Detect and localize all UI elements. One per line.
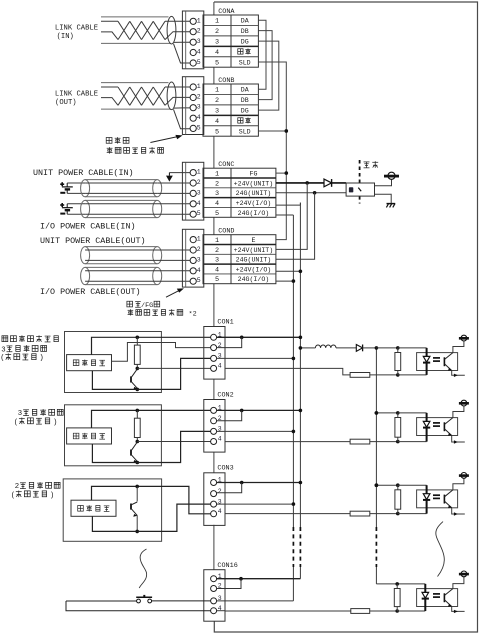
DC/DC converter U1 xyxy=(346,183,374,196)
connector body xyxy=(182,77,203,135)
optocoupler xyxy=(417,418,458,436)
rail link CON1->CON2 node xyxy=(375,411,379,415)
svg-text:CON3: CON3 xyxy=(217,464,233,472)
svg-text:LINK CABLE: LINK CABLE xyxy=(55,24,98,32)
svg-text:2: 2 xyxy=(197,246,201,253)
svg-text:3: 3 xyxy=(215,108,219,116)
svg-text:): ) xyxy=(50,492,54,500)
svg-text:1: 1 xyxy=(197,169,201,176)
svg-text:+24V(UNIT): +24V(UNIT) xyxy=(234,180,274,187)
svg-text:*2: *2 xyxy=(189,311,197,319)
diode D1 xyxy=(324,179,332,187)
CON16 emitter stub xyxy=(452,607,465,612)
sensor return wire xyxy=(135,530,139,534)
sensor power wire xyxy=(92,410,211,428)
svg-text:DG: DG xyxy=(241,108,249,115)
svg-text:1: 1 xyxy=(215,171,219,179)
power cable capsule xyxy=(85,199,157,201)
sensor 0V wire xyxy=(136,461,140,465)
battery (power supply) xyxy=(66,183,68,187)
svg-text:DB: DB xyxy=(241,97,249,104)
diode D2 xyxy=(356,345,362,352)
connector body xyxy=(182,11,203,69)
sensor outer box xyxy=(63,479,161,541)
svg-text:3: 3 xyxy=(197,189,201,196)
svg-text:2: 2 xyxy=(197,179,201,186)
continuation squiggle (right) xyxy=(436,522,444,577)
external pushbutton switch xyxy=(66,600,137,602)
svg-text:(: ( xyxy=(0,355,4,363)
svg-text:3: 3 xyxy=(197,38,201,45)
svg-text:2: 2 xyxy=(218,488,222,495)
svg-text:I/O POWER CABLE(IN): I/O POWER CABLE(IN) xyxy=(40,221,136,231)
optocoupler xyxy=(417,353,458,371)
24G(UNIT) line xyxy=(276,192,346,194)
power cable capsule xyxy=(85,266,157,268)
SLD / FG common line xyxy=(258,62,286,240)
svg-text:3: 3 xyxy=(215,190,219,198)
svg-text:24G(UNIT): 24G(UNIT) xyxy=(236,190,272,197)
CON16 series resistor xyxy=(225,610,351,612)
svg-text:5: 5 xyxy=(215,128,219,136)
CON16 opto feed line xyxy=(376,583,425,585)
svg-text:CON1: CON1 xyxy=(217,318,233,326)
svg-text:DA: DA xyxy=(241,87,249,94)
input resistor (series) xyxy=(225,368,350,375)
pull resistor (parallel) xyxy=(395,418,401,438)
svg-text:+24V(I/O): +24V(I/O) xyxy=(236,266,272,273)
optocoupler xyxy=(417,490,458,508)
svg-text:4: 4 xyxy=(215,266,219,274)
24G(UNIT) to COND xyxy=(276,193,315,259)
insulation dashed line + 绝缘 label xyxy=(359,160,361,183)
sensor outer box xyxy=(65,332,162,393)
opto-isolator input network xyxy=(217,482,301,484)
svg-text:4: 4 xyxy=(218,363,222,370)
svg-text:5: 5 xyxy=(215,59,219,67)
svg-text:SLD: SLD xyxy=(239,128,251,135)
svg-text:LINK CABLE: LINK CABLE xyxy=(55,90,98,98)
svg-text:FG: FG xyxy=(249,171,257,178)
svg-text:1: 1 xyxy=(215,18,219,26)
svg-text:E: E xyxy=(251,237,255,244)
action switching input wire xyxy=(112,343,211,362)
spine (internal common line) xyxy=(213,2,215,15)
opto feed rail xyxy=(375,348,377,527)
link cable twisted pair xyxy=(101,16,169,18)
power terminal xyxy=(453,406,464,417)
svg-text:2: 2 xyxy=(197,28,201,35)
power cable capsule xyxy=(85,179,157,181)
CON16 optocoupler xyxy=(417,589,458,607)
opto-isolator input network xyxy=(217,336,301,338)
sensor transistor xyxy=(136,486,138,501)
svg-text:+24V(UNIT): +24V(UNIT) xyxy=(234,247,274,254)
sensor signal wire xyxy=(92,486,211,513)
input resistor (series) xyxy=(225,441,350,443)
svg-text:2: 2 xyxy=(215,180,219,188)
connector body xyxy=(182,229,203,287)
svg-text:DA: DA xyxy=(241,18,249,25)
svg-text:): ) xyxy=(39,355,43,363)
svg-text:24G(UNIT): 24G(UNIT) xyxy=(236,257,272,264)
+24V(I/O) rail xyxy=(276,204,301,206)
sensor transistor xyxy=(130,376,132,382)
connector body xyxy=(182,162,203,220)
input resistor (series) xyxy=(225,513,350,515)
label: communication direct-mount connector xyxy=(106,138,112,144)
svg-text:+24V(I/O): +24V(I/O) xyxy=(236,200,272,207)
svg-text:3: 3 xyxy=(215,257,219,265)
svg-text:1: 1 xyxy=(215,87,219,95)
svg-text:3: 3 xyxy=(18,410,22,418)
svg-text:4: 4 xyxy=(215,118,219,126)
svg-text:2: 2 xyxy=(215,247,219,255)
detection circuit box xyxy=(67,428,112,444)
svg-text:2: 2 xyxy=(215,97,219,105)
power terminal xyxy=(453,479,464,490)
sensor output node xyxy=(136,440,140,444)
svg-text:(: ( xyxy=(11,492,15,500)
svg-text:3: 3 xyxy=(197,104,201,111)
svg-text:): ) xyxy=(53,419,57,427)
svg-text:1: 1 xyxy=(197,236,201,243)
svg-text:2: 2 xyxy=(215,28,219,36)
svg-text:DG: DG xyxy=(241,39,249,46)
svg-text:I/O POWER CABLE(OUT): I/O POWER CABLE(OUT) xyxy=(40,287,141,297)
switch return to pin4 xyxy=(66,601,211,611)
svg-text:/FG: /FG xyxy=(141,302,153,310)
svg-text:(IN): (IN) xyxy=(57,33,74,41)
svg-text:DB: DB xyxy=(241,28,249,35)
sensor pull resistor xyxy=(136,410,138,418)
24G(I/O) rail xyxy=(276,214,294,216)
+24V(UNIT) feed line with diode D1 xyxy=(276,182,346,184)
inductor L1 xyxy=(300,347,315,349)
svg-text:SLD: SLD xyxy=(239,59,251,66)
svg-text:5: 5 xyxy=(197,210,201,217)
svg-text:1: 1 xyxy=(197,83,201,90)
svg-text:5: 5 xyxy=(197,277,201,284)
svg-text:(: ( xyxy=(14,419,18,427)
sensor 0V wire xyxy=(136,388,140,392)
svg-text:5: 5 xyxy=(197,124,201,131)
svg-text:CON16: CON16 xyxy=(217,562,237,570)
pull resistor (parallel) xyxy=(395,353,401,371)
svg-text:4: 4 xyxy=(197,49,201,56)
battery (power supply) xyxy=(66,204,68,208)
svg-text:2: 2 xyxy=(15,483,19,491)
svg-text:CON2: CON2 xyxy=(217,391,233,399)
chassis ground xyxy=(387,203,396,205)
FG earth symbol at CONC pin1 xyxy=(169,172,190,174)
svg-text:24G(I/O): 24G(I/O) xyxy=(238,276,270,283)
svg-text:5: 5 xyxy=(197,59,201,66)
sensor transistor xyxy=(130,450,132,456)
svg-text:1: 1 xyxy=(215,237,219,245)
sensor outer box xyxy=(65,405,162,466)
sensor pull resistor xyxy=(136,337,138,345)
svg-text:4: 4 xyxy=(197,267,201,274)
svg-text:(OUT): (OUT) xyxy=(55,99,77,107)
CON16 pin3 to 24G rail xyxy=(217,600,294,602)
svg-text:5: 5 xyxy=(215,276,219,284)
svg-text:5: 5 xyxy=(215,210,219,218)
opto-isolator input network xyxy=(217,409,301,411)
detection circuit box xyxy=(71,500,116,516)
svg-text:1: 1 xyxy=(197,17,201,24)
svg-text:4: 4 xyxy=(215,49,219,57)
svg-text:3: 3 xyxy=(215,39,219,47)
svg-text:4: 4 xyxy=(218,436,222,443)
sensor power wire xyxy=(92,337,211,354)
detection circuit box xyxy=(67,355,112,371)
svg-text:2: 2 xyxy=(197,94,201,101)
svg-text:3: 3 xyxy=(1,346,5,354)
continuation squiggle (left) xyxy=(139,549,146,588)
CON16 pin1 strap/+24V xyxy=(217,578,301,580)
pull resistor (parallel) xyxy=(395,490,401,509)
svg-text:4: 4 xyxy=(218,508,222,515)
DC/DC outputs: power terminal + chassis ground xyxy=(375,179,392,186)
svg-text:UNIT POWER CABLE(OUT): UNIT POWER CABLE(OUT) xyxy=(40,236,146,246)
power cable capsule xyxy=(85,246,157,248)
+24V(UNIT) to COND xyxy=(276,183,307,249)
svg-text:24G(I/O): 24G(I/O) xyxy=(238,210,270,217)
CONA↔CONB daisy chain wires xyxy=(258,20,266,89)
svg-text:3: 3 xyxy=(197,256,201,263)
link cable twisted pair xyxy=(101,82,169,84)
sensor output node xyxy=(136,367,140,371)
CON16 power terminal xyxy=(453,577,464,589)
COND row4/5 joins xyxy=(276,270,301,272)
CON16 pull resistor xyxy=(394,589,400,607)
label: power/FG direct-mount connector *2 xyxy=(127,301,133,307)
svg-text:4: 4 xyxy=(197,200,201,207)
svg-text:UNIT POWER CABLE(IN): UNIT POWER CABLE(IN) xyxy=(33,168,134,178)
svg-text:4: 4 xyxy=(215,200,219,208)
power terminal xyxy=(453,341,464,352)
module frame xyxy=(214,2,478,632)
svg-text:4: 4 xyxy=(197,114,201,121)
